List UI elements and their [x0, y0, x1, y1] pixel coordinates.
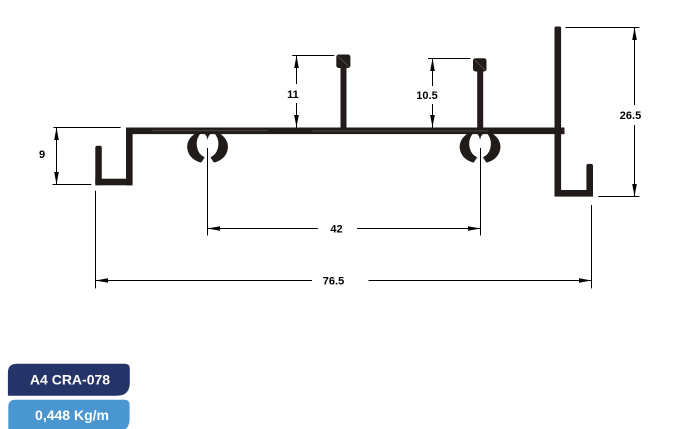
extension line: dim 9 top [54, 127, 121, 129]
extension line: dim 76.5 right [591, 205, 593, 288]
main horizontal bar [126, 128, 565, 135]
dimension 11 [296, 56, 298, 128]
post P1 square head [336, 55, 350, 69]
left end vertical drop [126, 128, 133, 186]
extension line: dim 9 bottom [53, 184, 92, 186]
svg-text:10.5: 10.5 [416, 90, 437, 102]
svg-text:9: 9 [39, 149, 45, 161]
clip 2 C-ring [460, 129, 499, 161]
extension line: dim 42 right (from clip 2 center) [480, 148, 482, 236]
label badge: weight [8, 400, 129, 429]
clip ring 2 (C-shaped screw port under bar) [460, 129, 499, 161]
post P2 square head [473, 58, 487, 71]
extension line: dim 42 left (from clip 1 center) [207, 148, 209, 236]
svg-text:11: 11 [287, 89, 299, 101]
svg-text:0,448 Kg/m: 0,448 Kg/m [35, 407, 109, 423]
clip ring 1 (C-shaped screw port under bar) [188, 129, 227, 161]
post P1 stem [341, 64, 347, 128]
extension line: dim 26.5 top [566, 27, 640, 29]
extension line: dim 10.5 top [428, 58, 470, 60]
dimension 10.5 [432, 59, 434, 128]
dimension 9 [56, 128, 58, 185]
right upturn stub [586, 164, 593, 197]
svg-text:A4 CRA-078: A4 CRA-078 [30, 371, 110, 387]
faint machining streaks inside main bar [152, 130, 488, 132]
svg-text:42: 42 [330, 223, 342, 235]
post P2 stem [477, 68, 483, 128]
extension line: dim 26.5 bottom [598, 196, 639, 198]
right bottom flange [555, 190, 594, 197]
clip 2 center pendant point [476, 133, 485, 140]
dimension 76.5 [96, 280, 592, 282]
clip 1 C-ring [188, 129, 227, 161]
junction nub right of vertical bar [561, 128, 565, 135]
extension line: dim 11 top [292, 55, 334, 57]
dimension 42 [208, 228, 481, 230]
svg-text:76.5: 76.5 [323, 275, 344, 287]
dimension 26.5 [634, 28, 636, 197]
extension line: dim 76.5 left [95, 191, 97, 289]
label badge: part number [8, 364, 130, 396]
clip 1 center pendant point [203, 133, 212, 140]
left upturn stub [95, 146, 102, 186]
svg-text:26.5: 26.5 [620, 110, 641, 122]
left bottom flange [95, 179, 132, 186]
right tall vertical bar [555, 27, 562, 197]
